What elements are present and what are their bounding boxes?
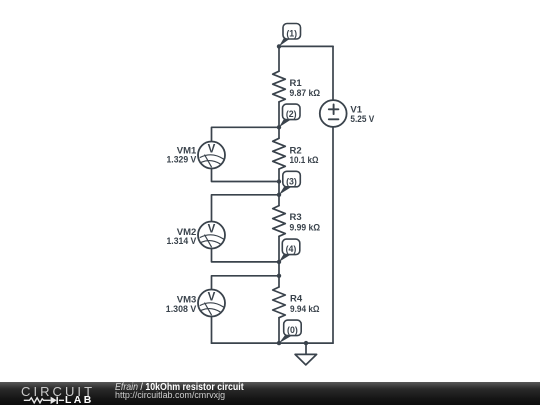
footer url (115, 390, 225, 401)
wire node1 down to R1 (278, 46, 280, 71)
resistor R1 (273, 71, 286, 102)
svg-text:9.99 kΩ: 9.99 kΩ (290, 223, 321, 234)
junction node3 lower (277, 193, 281, 197)
node (1) (279, 24, 301, 47)
svg-text:V: V (208, 223, 216, 235)
junction node0 (277, 341, 281, 345)
svg-text:5.25 V: 5.25 V (350, 114, 374, 125)
wire V1 branch upper (332, 46, 334, 100)
svg-text:9.94 kΩ: 9.94 kΩ (290, 304, 320, 315)
voltmeter VM3 (198, 290, 225, 317)
svg-text:R3: R3 (290, 212, 302, 223)
wire VM1 bottom (212, 169, 280, 182)
resistor R3 (273, 206, 286, 237)
voltage source V1 (320, 100, 347, 127)
svg-text:10.1 kΩ: 10.1 kΩ (290, 155, 319, 166)
svg-text:(4): (4) (286, 244, 297, 254)
wire R1 to node2 (278, 102, 280, 138)
wire VM3 top (212, 276, 280, 290)
svg-text:9.87 kΩ: 9.87 kΩ (290, 88, 321, 99)
wire R2 to R3 (278, 169, 280, 206)
logo LAB (65, 395, 94, 406)
voltmeter VM2 (198, 222, 225, 249)
wire VM3 bottom (211, 317, 213, 344)
svg-text:(3): (3) (286, 176, 297, 186)
wire top horizontal node1 to V1 branch (279, 45, 333, 47)
junction ground (304, 341, 308, 345)
wire VM1 top (212, 127, 280, 141)
wire R4 to bottom (278, 318, 280, 343)
junction node2 (277, 125, 281, 129)
resistor R4 (273, 287, 286, 318)
voltmeter VM1 (198, 142, 225, 169)
svg-text:V: V (208, 291, 216, 303)
footer bar (0, 382, 540, 405)
resistor R2 (273, 138, 286, 169)
wire bottom horizontal (212, 342, 334, 344)
svg-text:1.314 V: 1.314 V (167, 236, 197, 247)
wire V1 branch lower (332, 127, 334, 343)
wire R3 to R4 (278, 236, 280, 287)
logo waveform (0, 0, 110, 405)
svg-text:(2): (2) (286, 109, 297, 119)
node (3) (279, 171, 300, 195)
svg-text:1.308 V: 1.308 V (166, 304, 197, 315)
svg-text:(1): (1) (286, 29, 297, 39)
svg-text:(0): (0) (287, 325, 298, 335)
wire VM2 bottom (212, 249, 280, 262)
svg-text:R4: R4 (290, 293, 303, 304)
svg-text:V: V (208, 143, 216, 155)
logo CIRCUIT (21, 384, 95, 399)
junction node3 upper (277, 179, 281, 183)
footer title (115, 382, 244, 393)
wire VM2 top (212, 195, 280, 222)
node (2) (279, 104, 300, 127)
node (0) (279, 320, 301, 343)
node (4) (279, 239, 300, 262)
ground stub (305, 343, 307, 354)
svg-text:1.329 V: 1.329 V (167, 155, 197, 166)
junction node4 lower (277, 274, 281, 278)
junction node1 (277, 44, 281, 48)
junction node4 upper (277, 260, 281, 264)
ground (295, 354, 317, 365)
